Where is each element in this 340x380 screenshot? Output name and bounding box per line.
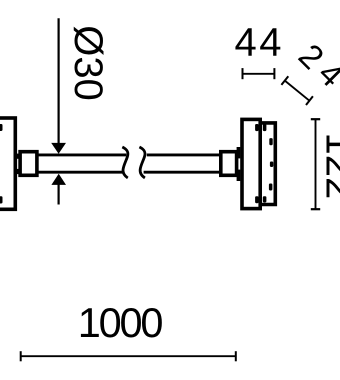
dim 122 tick top (311, 118, 320, 120)
dim 24 line (285, 81, 310, 101)
right back plate (259, 123, 275, 205)
dim 24 tick lower (306, 96, 313, 105)
screw slot pair top right (263, 124, 267, 131)
left connector block (20, 152, 37, 176)
dim 44 line (243, 73, 275, 75)
back plate slot 2 (270, 162, 273, 168)
dim 24 tick upper (281, 76, 288, 85)
dim Ø30 arrow down (51, 143, 66, 154)
screw slot pair top left (255, 124, 259, 131)
left plate screw slot bottom (0, 196, 3, 203)
dim Ø30 arrow up (51, 174, 66, 185)
svg-text:44: 44 (235, 21, 285, 65)
dim Ø30 leader line upper (57, 18, 59, 144)
dim Ø30 leader line lower (57, 184, 59, 205)
back plate slot 1 (269, 138, 272, 145)
tube right segment top line (147, 153, 220, 156)
dim 1000 tick left (20, 351, 22, 361)
dim 1000 tick right (235, 351, 237, 361)
left ear stub top (16, 154, 19, 159)
tube left segment bottom line (39, 171, 124, 174)
right ear top (237, 147, 241, 158)
dim 1000 line (21, 355, 236, 357)
dim 44 tick left (242, 68, 244, 79)
dim 44 tick right (273, 68, 275, 79)
screw slot pair bottom right (263, 196, 267, 202)
break curve right (139, 147, 145, 178)
right connector block (221, 152, 237, 176)
right front plate (242, 119, 260, 208)
svg-text:1000: 1000 (78, 299, 163, 346)
tube left segment top line (39, 153, 127, 156)
dim 122 line (315, 119, 317, 209)
dim 122 tick bottom (311, 208, 320, 210)
tube right segment bottom line (144, 171, 220, 174)
break curve left (122, 147, 128, 178)
screw slot pair bottom left (255, 196, 259, 203)
svg-text:122: 122 (318, 133, 340, 200)
left wall plate (clipped at image edge) (0, 118, 15, 209)
right ear bottom (237, 170, 241, 181)
svg-text:Ø30: Ø30 (66, 25, 110, 101)
back plate slot 3 (269, 184, 273, 191)
left ear stub bottom (16, 169, 19, 174)
left plate screw slot top (0, 124, 3, 131)
